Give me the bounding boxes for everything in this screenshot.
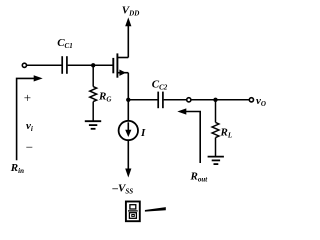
port terminal circle [187,98,191,102]
resistor R_L [215,100,217,123]
V_DD supply wire [127,22,129,58]
svg-text:−: − [26,140,33,155]
transistor M1 source lead with arrow [117,72,128,74]
node source junction [126,98,130,102]
resistor R_G [92,65,94,86]
capacitor C_C1 [62,56,67,74]
svg-text:I: I [140,127,146,139]
ground below R_G [85,121,101,129]
capacitor C_C2 [158,92,163,109]
node gate junction [91,63,95,67]
caption glyph 圖 [126,202,140,222]
wire node to C_C2 [128,99,158,101]
R_in arrow [17,78,35,160]
wire C_C1 to gate [68,64,113,66]
output terminal circle [249,98,253,102]
wire source to output node [127,73,129,121]
input terminal circle [22,63,26,67]
wire C_C2 to port terminal [164,99,187,101]
ground below R_L [208,157,224,165]
current source I [119,121,138,140]
wire input to C_C1 [27,64,62,66]
V_DD arrowhead [125,17,131,26]
transistor M1 (NMOS) gate bar [112,58,114,73]
svg-text:+: + [24,90,31,105]
transistor M1 drain lead [117,57,128,59]
wire port to output terminal [191,99,249,101]
wire R_L to ground [215,138,217,157]
caption glyph 一 [145,207,166,212]
transistor M1 channel bar [116,53,118,77]
wire current source to -V_SS with arrowhead [127,140,129,170]
node R_L junction [213,98,217,102]
R_out arrow [181,112,200,164]
wire R_G to ground [92,102,94,122]
